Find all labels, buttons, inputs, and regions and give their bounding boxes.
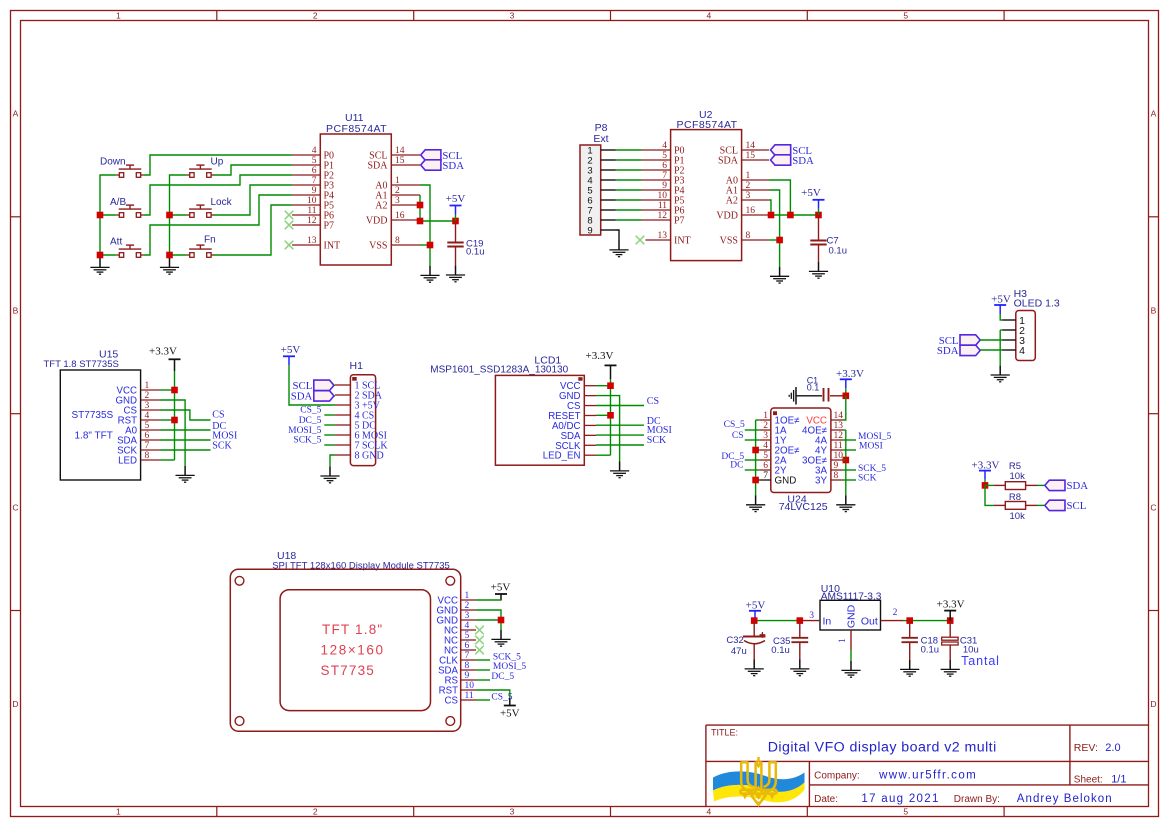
svg-text:8: 8 xyxy=(145,451,150,461)
svg-text:TITLE:: TITLE: xyxy=(711,728,738,738)
svg-text:PCF8574AT: PCF8574AT xyxy=(326,123,387,135)
svg-text:1: 1 xyxy=(116,10,121,20)
svg-text:A: A xyxy=(13,109,19,119)
svg-text:128×160: 128×160 xyxy=(321,643,385,658)
svg-text:4: 4 xyxy=(707,10,712,20)
svg-text:+3.3V: +3.3V xyxy=(836,368,864,380)
svg-text:0.1u: 0.1u xyxy=(466,246,485,257)
svg-text:16: 16 xyxy=(746,206,756,216)
svg-text:REV:: REV: xyxy=(1074,742,1098,754)
svg-text:2: 2 xyxy=(313,806,318,816)
svg-text:SCK: SCK xyxy=(212,440,232,451)
svg-text:MOSI_5: MOSI_5 xyxy=(858,432,892,442)
svg-text:ST7735: ST7735 xyxy=(321,663,375,678)
svg-text:3: 3 xyxy=(465,611,470,621)
svg-text:Lock: Lock xyxy=(211,197,233,208)
svg-text:VDD: VDD xyxy=(366,216,388,227)
svg-text:47u: 47u xyxy=(731,646,747,657)
svg-text:9: 9 xyxy=(587,226,592,237)
svg-text:8 GND: 8 GND xyxy=(355,451,384,462)
svg-text:4: 4 xyxy=(465,621,470,631)
svg-text:SCK: SCK xyxy=(647,435,667,446)
svg-text:+5V: +5V xyxy=(446,193,466,205)
svg-text:4: 4 xyxy=(662,141,667,151)
svg-text:10: 10 xyxy=(658,191,668,201)
svg-text:3: 3 xyxy=(510,10,515,20)
svg-text:D: D xyxy=(12,699,18,709)
svg-text:16: 16 xyxy=(395,211,405,221)
svg-text:CS: CS xyxy=(212,410,224,421)
svg-text:Ext: Ext xyxy=(593,133,608,145)
svg-text:CS: CS xyxy=(732,431,744,441)
svg-text:5: 5 xyxy=(903,806,908,816)
svg-text:C: C xyxy=(1150,502,1156,512)
svg-text:2.0: 2.0 xyxy=(1105,742,1120,754)
svg-text:Sheet:: Sheet: xyxy=(1074,774,1103,785)
svg-text:+5V: +5V xyxy=(500,708,520,720)
svg-text:H1: H1 xyxy=(350,360,364,372)
svg-text:10: 10 xyxy=(307,196,317,206)
svg-text:13: 13 xyxy=(658,231,668,241)
svg-text:6: 6 xyxy=(145,431,150,441)
svg-text:LED: LED xyxy=(118,456,137,467)
svg-text:SDA: SDA xyxy=(792,155,814,167)
svg-text:11: 11 xyxy=(307,206,316,216)
svg-text:4: 4 xyxy=(1019,345,1025,357)
svg-text:74LVC125: 74LVC125 xyxy=(779,501,828,513)
svg-text:B: B xyxy=(1151,306,1157,316)
svg-text:DC_5: DC_5 xyxy=(491,672,514,682)
svg-text:4: 4 xyxy=(707,806,712,816)
svg-text:Fn: Fn xyxy=(204,235,216,246)
svg-text:MSP1601_SSD1283A_130130: MSP1601_SSD1283A_130130 xyxy=(430,365,568,376)
svg-text:3: 3 xyxy=(145,401,150,411)
svg-text:+3.3V: +3.3V xyxy=(149,346,177,358)
svg-text:7: 7 xyxy=(312,176,317,186)
svg-text:11: 11 xyxy=(834,441,843,451)
svg-text:5: 5 xyxy=(465,631,470,641)
svg-text:1: 1 xyxy=(763,411,768,421)
svg-text:8: 8 xyxy=(395,236,400,246)
svg-text:1: 1 xyxy=(395,176,400,186)
svg-text:0.1u: 0.1u xyxy=(771,645,790,656)
svg-text:6: 6 xyxy=(763,461,768,471)
svg-text:14: 14 xyxy=(834,411,844,421)
svg-text:12: 12 xyxy=(658,211,668,221)
svg-text:OLED 1.3: OLED 1.3 xyxy=(1014,298,1060,310)
svg-text:4: 4 xyxy=(312,146,317,156)
svg-text:7: 7 xyxy=(465,651,470,661)
svg-text:SDA: SDA xyxy=(718,156,739,167)
svg-text:+5V: +5V xyxy=(491,582,511,594)
svg-text:SDA: SDA xyxy=(937,345,959,357)
svg-text:7: 7 xyxy=(763,471,768,481)
svg-text:6: 6 xyxy=(662,161,667,171)
svg-text:13: 13 xyxy=(834,421,844,431)
svg-text:ST7735S: ST7735S xyxy=(72,410,114,421)
svg-text:1: 1 xyxy=(116,806,121,816)
svg-text:11: 11 xyxy=(658,201,667,211)
svg-text:SDA: SDA xyxy=(367,161,388,172)
svg-text:AMS1117-3.3: AMS1117-3.3 xyxy=(821,592,882,603)
svg-text:Date:: Date: xyxy=(814,794,838,805)
svg-text:VSS: VSS xyxy=(369,241,387,252)
svg-text:MOSI: MOSI xyxy=(859,442,883,452)
svg-text:PCF8574AT: PCF8574AT xyxy=(677,119,738,131)
svg-text:CS: CS xyxy=(445,696,459,707)
svg-text:12: 12 xyxy=(307,216,317,226)
svg-text:1: 1 xyxy=(465,591,470,601)
svg-text:TFT 1.8": TFT 1.8" xyxy=(322,622,383,637)
svg-text:17 aug 2021: 17 aug 2021 xyxy=(861,793,939,805)
svg-text:P7: P7 xyxy=(674,216,685,227)
svg-text:SCL: SCL xyxy=(1067,500,1087,512)
svg-text:9: 9 xyxy=(662,181,667,191)
svg-text:2: 2 xyxy=(893,608,898,618)
svg-text:1: 1 xyxy=(145,381,150,391)
svg-text:3: 3 xyxy=(510,806,515,816)
svg-text:5: 5 xyxy=(903,10,908,20)
svg-text:4: 4 xyxy=(145,411,150,421)
svg-text:2: 2 xyxy=(395,186,400,196)
svg-text:6: 6 xyxy=(465,641,470,651)
svg-text:Andrey Belokon: Andrey Belokon xyxy=(1017,793,1113,805)
svg-text:15: 15 xyxy=(746,151,756,161)
svg-text:Up: Up xyxy=(211,157,224,168)
svg-text:5: 5 xyxy=(145,421,150,431)
svg-text:+5V: +5V xyxy=(281,344,301,356)
svg-text:A2: A2 xyxy=(375,201,387,212)
svg-text:C: C xyxy=(12,502,18,512)
svg-text:5: 5 xyxy=(763,451,768,461)
svg-text:8: 8 xyxy=(746,231,751,241)
svg-text:SCK_5: SCK_5 xyxy=(493,652,521,662)
svg-text:1: 1 xyxy=(838,638,848,643)
svg-text:9: 9 xyxy=(465,671,470,681)
svg-text:SDA: SDA xyxy=(291,391,313,403)
svg-text:SCK: SCK xyxy=(858,474,877,484)
svg-text:4: 4 xyxy=(763,441,768,451)
svg-text:11: 11 xyxy=(465,691,474,701)
svg-text:14: 14 xyxy=(746,141,756,151)
svg-text:SPI TFT 128x160 Display Module: SPI TFT 128x160 Display Module ST7735 xyxy=(272,561,450,572)
svg-text:10k: 10k xyxy=(1010,471,1026,482)
svg-text:B: B xyxy=(13,306,19,316)
svg-text:2: 2 xyxy=(313,10,318,20)
svg-text:DC_5: DC_5 xyxy=(299,416,322,426)
svg-text:+5V: +5V xyxy=(746,600,766,612)
svg-text:9: 9 xyxy=(834,461,839,471)
svg-text:8: 8 xyxy=(465,661,470,671)
svg-text:A2: A2 xyxy=(726,196,738,207)
svg-text:DC: DC xyxy=(730,461,743,471)
svg-text:C32: C32 xyxy=(726,635,743,646)
svg-text:1.8" TFT: 1.8" TFT xyxy=(75,431,113,442)
svg-text:+3.3V: +3.3V xyxy=(937,599,965,611)
svg-text:5: 5 xyxy=(662,151,667,161)
svg-text:10k: 10k xyxy=(1010,511,1026,522)
svg-text:GND: GND xyxy=(775,476,797,487)
svg-text:7: 7 xyxy=(145,441,150,451)
svg-text:+3.3V: +3.3V xyxy=(586,350,614,362)
svg-text:GND: GND xyxy=(846,604,858,628)
svg-text:CS_5: CS_5 xyxy=(300,406,321,416)
svg-text:D: D xyxy=(1150,699,1156,709)
svg-text:Digital VFO display board v2 m: Digital VFO display board v2 multi xyxy=(768,740,997,756)
svg-text:12: 12 xyxy=(834,431,844,441)
svg-text:3: 3 xyxy=(763,431,768,441)
svg-text:8: 8 xyxy=(834,471,839,481)
svg-text:3Y: 3Y xyxy=(815,476,827,487)
svg-text:VSS: VSS xyxy=(720,236,738,247)
svg-text:0.1u: 0.1u xyxy=(921,645,940,656)
svg-text:2: 2 xyxy=(465,601,470,611)
svg-text:CS: CS xyxy=(647,396,659,407)
svg-text:14: 14 xyxy=(395,146,405,156)
svg-text:INT: INT xyxy=(324,241,341,252)
svg-text:LED_EN: LED_EN xyxy=(543,451,581,462)
svg-text:3: 3 xyxy=(395,196,400,206)
svg-text:13: 13 xyxy=(307,236,317,246)
svg-text:SCK_5: SCK_5 xyxy=(858,464,886,474)
svg-text:VDD: VDD xyxy=(716,211,738,222)
svg-text:9: 9 xyxy=(312,186,317,196)
svg-text:A: A xyxy=(1151,109,1157,119)
svg-text:Drawn By:: Drawn By: xyxy=(954,794,1000,805)
svg-text:7: 7 xyxy=(662,171,667,181)
svg-text:2: 2 xyxy=(763,421,768,431)
svg-text:6: 6 xyxy=(312,166,317,176)
svg-text:0.1u: 0.1u xyxy=(829,246,848,257)
svg-text:Company:: Company: xyxy=(814,771,860,782)
svg-text:SDA: SDA xyxy=(442,160,464,172)
svg-text:www.ur5ffr.com: www.ur5ffr.com xyxy=(878,770,977,782)
svg-text:1/1: 1/1 xyxy=(1111,773,1126,785)
svg-text:P7: P7 xyxy=(324,221,335,232)
svg-text:2: 2 xyxy=(145,391,150,401)
svg-text:Down: Down xyxy=(100,157,126,168)
svg-text:MOSI_5: MOSI_5 xyxy=(288,426,322,436)
svg-text:+5V: +5V xyxy=(801,187,821,199)
svg-text:A/B: A/B xyxy=(110,197,126,208)
svg-text:SCK_5: SCK_5 xyxy=(293,436,321,446)
svg-text:R8: R8 xyxy=(1009,492,1021,503)
svg-text:+5V: +5V xyxy=(991,294,1011,306)
svg-text:Tantal: Tantal xyxy=(961,654,1000,668)
svg-text:10: 10 xyxy=(834,451,844,461)
svg-text:1: 1 xyxy=(746,171,751,181)
svg-text:TFT 1.8 ST7735S: TFT 1.8 ST7735S xyxy=(44,359,119,370)
svg-text:In: In xyxy=(823,616,832,628)
svg-text:SDA: SDA xyxy=(1067,480,1089,492)
svg-text:0.1: 0.1 xyxy=(807,383,820,393)
svg-text:10: 10 xyxy=(465,681,475,691)
svg-text:Out: Out xyxy=(861,616,878,628)
svg-text:2: 2 xyxy=(746,181,751,191)
svg-text:INT: INT xyxy=(674,236,691,247)
svg-text:MOSI_5: MOSI_5 xyxy=(493,662,527,672)
svg-text:CS_5: CS_5 xyxy=(724,420,745,430)
svg-text:3: 3 xyxy=(809,611,814,621)
svg-text:Att: Att xyxy=(110,237,122,248)
svg-text:15: 15 xyxy=(395,156,405,166)
svg-text:5: 5 xyxy=(312,156,317,166)
svg-text:3: 3 xyxy=(746,191,751,201)
